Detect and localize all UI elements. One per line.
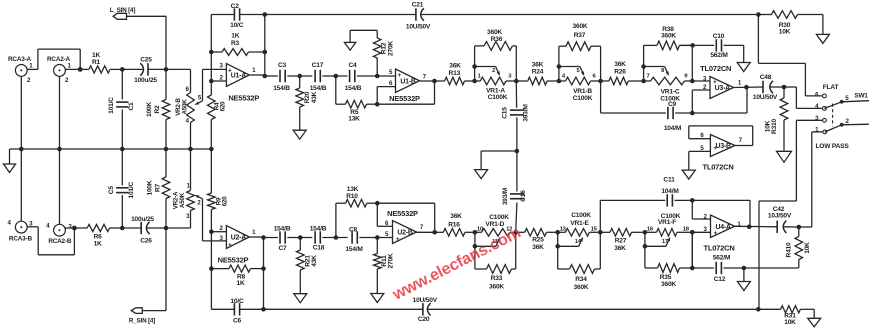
wire C17 to C4 — [322, 75, 347, 77]
resistor R33 360K / potentiometer VR1-D C100K — [473, 214, 518, 291]
svg-text:+: + — [396, 236, 400, 243]
wire U1-A output — [249, 15, 264, 77]
capacitor C48 10U/50V — [753, 74, 778, 101]
wire U1-B feedback — [377, 81, 434, 104]
wire U3-A output — [734, 86, 763, 89]
wire C48 to switch terminal 4 — [784, 87, 823, 108]
node RCA2-B ground-bus — [57, 147, 62, 152]
svg-text:RCA3-A: RCA3-A — [8, 56, 32, 63]
svg-text:R37: R37 — [574, 32, 586, 39]
resistor R7 100K — [147, 149, 170, 228]
wire bottom bus C6 to C20 — [240, 308, 423, 310]
svg-text:36K: 36K — [450, 213, 462, 220]
switch SW1 terminal 1 — [815, 126, 827, 133]
svg-text:562/M: 562/M — [713, 255, 731, 262]
svg-text:360K: 360K — [489, 284, 504, 291]
svg-text:C10: C10 — [713, 33, 725, 40]
ground (R21) — [294, 294, 307, 303]
ground (C15/C16) — [475, 170, 488, 179]
wire top bus C21 to R30 — [421, 14, 759, 16]
label LOW PASS — [815, 143, 849, 150]
svg-text:R7: R7 — [154, 183, 161, 192]
wire C12 ground stem — [743, 268, 745, 282]
wire C9 line — [601, 112, 666, 114]
svg-text:10K: 10K — [804, 242, 811, 254]
svg-text:100u/25: 100u/25 — [131, 216, 154, 223]
switch SW1 link dashed — [832, 104, 834, 127]
svg-text:36K: 36K — [614, 245, 626, 252]
svg-text:R33: R33 — [491, 275, 503, 282]
svg-text:VR1-D: VR1-D — [485, 221, 504, 228]
svg-text:154/B: 154/B — [274, 225, 291, 232]
svg-text:1K: 1K — [94, 241, 102, 248]
wire C7 to C18 — [287, 237, 312, 239]
svg-text:C17: C17 — [312, 62, 324, 69]
ground bus (input common) — [10, 148, 212, 150]
ground (R31) — [808, 309, 821, 327]
switch SW1 terminal 3 — [815, 115, 826, 122]
node R_SIN junction — [164, 226, 169, 231]
potentiometer VR2-A A50K — [172, 149, 201, 228]
wire C11 line — [600, 199, 665, 201]
svg-text:R13: R13 — [449, 70, 461, 77]
wire U2-B output — [417, 224, 435, 232]
svg-text:13: 13 — [560, 227, 567, 233]
node L_SIN junction — [164, 67, 169, 72]
node U4-A output — [747, 225, 752, 230]
svg-text:101/C: 101/C — [108, 97, 115, 114]
wire C12 to R410 bottom — [744, 267, 799, 269]
svg-text:R34: R34 — [575, 276, 587, 283]
wire C9 feedback to output — [692, 87, 747, 113]
wire R38 to C10 — [680, 44, 693, 46]
svg-text:R24: R24 — [532, 68, 544, 75]
connector RCA2-A — [47, 56, 71, 84]
svg-text:C7: C7 — [278, 245, 287, 252]
capacitor C7 154/B — [264, 225, 291, 252]
node R12 junction — [375, 74, 380, 79]
svg-text:C100K: C100K — [573, 95, 593, 102]
node R21 junction — [298, 235, 303, 240]
node R35 right — [690, 266, 695, 271]
svg-text:360K: 360K — [573, 23, 588, 30]
node R8 right — [261, 266, 266, 271]
svg-text:13K: 13K — [347, 186, 359, 193]
ground (C12) — [737, 282, 750, 291]
capacitor C16 393/M — [502, 151, 527, 232]
ground (R11) — [371, 294, 384, 303]
wire U1-B pin6 — [377, 87, 395, 105]
wire bottom bus C20 to R31 — [428, 308, 759, 310]
svg-text:2: 2 — [492, 68, 495, 74]
svg-text:C6: C6 — [233, 318, 242, 325]
op-amp U1-A — [220, 62, 260, 102]
node top bus output — [263, 12, 268, 17]
node C6 right — [261, 307, 266, 312]
node C48 right — [782, 85, 787, 90]
node R5 right — [375, 102, 380, 107]
wire U1-A pin2 — [211, 80, 226, 82]
svg-text:RCA2-B: RCA2-B — [48, 238, 72, 245]
label SW1 — [854, 92, 868, 99]
svg-text:R27: R27 — [615, 238, 627, 245]
switch SW1 blade flat — [824, 102, 841, 109]
wire RCA3-A pin1 link — [27, 49, 80, 69]
svg-text:43K: 43K — [311, 91, 318, 103]
svg-text:360K: 360K — [574, 284, 589, 291]
svg-text:10K: 10K — [779, 29, 791, 36]
resistor R26 36K — [601, 61, 644, 85]
switch SW1 terminal 6 — [815, 91, 826, 98]
wire C42 right — [783, 226, 799, 228]
svg-text:393/M: 393/M — [502, 187, 509, 205]
capacitor C20 10U/50V — [413, 297, 438, 323]
op-amp U1-B — [389, 69, 420, 103]
resistor R24 36K — [516, 61, 559, 85]
node bottom bus right — [756, 307, 761, 312]
svg-text:TL072CN: TL072CN — [702, 162, 733, 171]
svg-text:17: 17 — [662, 239, 668, 245]
connector RCA2-B — [46, 223, 72, 245]
svg-text:A50K: A50K — [179, 192, 186, 208]
svg-text:C15: C15 — [501, 107, 508, 119]
svg-text:C26: C26 — [140, 238, 152, 245]
node R11 junction — [375, 235, 380, 240]
resistor R31 10K — [758, 306, 814, 327]
svg-text:VR1-B: VR1-B — [573, 88, 592, 95]
resistor R12 270K — [350, 30, 394, 76]
resistor R13 36K — [435, 63, 475, 85]
capacitor C4 154/B — [345, 62, 362, 92]
wire pole 5 out — [842, 101, 869, 102]
wire C25 to VR2-B — [166, 68, 191, 70]
node U1-B output — [432, 79, 437, 84]
svg-text:R_SIN [4]: R_SIN [4] — [129, 318, 155, 325]
svg-text:562/M: 562/M — [710, 52, 728, 59]
svg-text:C16: C16 — [520, 190, 527, 202]
node U2-A pin2 — [209, 229, 214, 234]
node C1 ground-bus — [120, 147, 125, 152]
svg-text:154/B: 154/B — [345, 85, 362, 92]
svg-text:U1-B: U1-B — [400, 78, 416, 85]
resistor R4 620 — [208, 81, 227, 149]
svg-text:+: + — [398, 72, 402, 79]
resistor R37 360K / potentiometer VR1-B C100K — [557, 23, 603, 102]
svg-text:R36: R36 — [491, 36, 503, 43]
svg-text:C11: C11 — [663, 177, 675, 184]
wire top bus left — [211, 14, 234, 16]
wire terminal 1 to lowpass node — [799, 132, 823, 227]
wiper VR2-B — [195, 69, 202, 104]
watermark — [389, 224, 524, 305]
node R3 left — [209, 50, 214, 55]
wire U2-A pin2 — [211, 231, 226, 233]
svg-text:36K: 36K — [614, 61, 626, 68]
svg-text:1K: 1K — [236, 280, 244, 287]
flag R_SIN [4] — [129, 228, 166, 325]
svg-text:C100K: C100K — [571, 212, 591, 219]
capacitor C5 101/C — [108, 149, 135, 228]
wire C18 to C8 — [322, 237, 347, 239]
svg-text:A50K: A50K — [181, 99, 188, 115]
resistor R27 36K — [600, 229, 645, 252]
wire pin3 node down — [691, 232, 693, 268]
svg-text:U3-A: U3-A — [715, 85, 731, 92]
resistor R6 1K — [74, 224, 122, 247]
wire VR1-B nodeB down — [600, 81, 602, 113]
svg-text:C12: C12 — [714, 276, 726, 283]
svg-text:U2-A: U2-A — [231, 235, 247, 242]
svg-text:R16: R16 — [448, 221, 460, 228]
node shared C15/C16 — [515, 149, 520, 154]
op-amp U3-B — [700, 132, 735, 171]
svg-text:R10: R10 — [346, 193, 358, 200]
node top bus right — [756, 12, 761, 17]
capacitor C6 10/C — [230, 298, 244, 325]
svg-text:C100K: C100K — [488, 94, 508, 101]
wire shared ground tap — [481, 151, 517, 170]
capacitor C18 154/B — [310, 225, 327, 251]
resistor R8 1K — [211, 265, 263, 287]
svg-text:RCA3-B: RCA3-B — [9, 236, 33, 243]
svg-text:10U/50V: 10U/50V — [753, 94, 778, 101]
node U1-A output — [263, 74, 268, 79]
switch SW1 pole 2 — [840, 118, 850, 127]
wire RCA2-A shield — [59, 76, 61, 149]
resistor R3 1K — [211, 33, 264, 56]
capacitor C10 562/M — [693, 33, 744, 59]
svg-text:104/M: 104/M — [661, 188, 679, 195]
svg-text:10/C: 10/C — [230, 298, 244, 305]
wire RCA2-B pin3 — [65, 227, 74, 229]
wire R8 left vertical — [211, 232, 234, 310]
svg-text:U2-B: U2-B — [397, 230, 413, 237]
wire C4 to U1-B pin5 — [357, 75, 396, 77]
resistor R9 620 — [208, 149, 229, 232]
svg-text:TL072CN: TL072CN — [703, 243, 734, 252]
svg-text:U3-B: U3-B — [716, 143, 732, 150]
svg-text:R2: R2 — [154, 105, 161, 114]
node input-L junction — [78, 67, 83, 72]
wire U1-B output — [420, 73, 435, 81]
wire RCA3-B pin3 link — [27, 227, 74, 255]
svg-text:SW1: SW1 — [854, 92, 868, 99]
wire U3-B pin5 — [689, 151, 711, 170]
svg-text:C2: C2 — [231, 3, 240, 10]
wire feedback left vertical — [210, 15, 212, 82]
svg-text:C48: C48 — [760, 74, 772, 81]
wire C26 to VR2-A — [166, 227, 191, 229]
resistor R34 360K / potentiometer VR1-E C100K — [555, 212, 602, 291]
ground (U3-B pin5) — [682, 170, 695, 179]
capacitor C42 10J/50V — [768, 206, 792, 233]
svg-text:U4-A: U4-A — [715, 224, 731, 231]
wire RCA3-B shield — [20, 149, 22, 221]
svg-text:VR1-F: VR1-F — [658, 219, 676, 226]
svg-text:R1: R1 — [92, 59, 101, 66]
svg-text:154/B: 154/B — [310, 225, 327, 232]
svg-text:+: + — [714, 230, 718, 237]
ground (R30) — [816, 15, 829, 44]
svg-text:VR1-E: VR1-E — [570, 220, 589, 227]
svg-text:270K: 270K — [387, 253, 394, 268]
wire U3-A pin2 — [692, 90, 710, 113]
svg-text:5: 5 — [576, 68, 579, 74]
wire flat feed to terminal 6 — [758, 15, 822, 96]
resistor R35 360K / potentiometer VR1-F C100K — [643, 213, 695, 288]
svg-text:101/C: 101/C — [128, 181, 135, 198]
ground (input bus) — [4, 149, 16, 173]
wire top bus C2 to C21 — [240, 14, 416, 16]
svg-text:100u/25: 100u/25 — [134, 77, 157, 84]
capacitor C15 393/M — [501, 81, 529, 151]
wire C3 to C17 — [287, 75, 312, 77]
svg-text:620: 620 — [220, 101, 227, 111]
svg-text:C3: C3 — [278, 62, 287, 69]
potentiometer VR2-B A50K — [175, 69, 202, 149]
capacitor C25 100u/25 — [122, 57, 166, 85]
svg-text:154/M: 154/M — [345, 246, 363, 253]
svg-text:C5: C5 — [108, 186, 115, 195]
svg-text:C21: C21 — [412, 1, 424, 8]
svg-text:154/B: 154/B — [273, 85, 290, 92]
wire RCA2-B shield — [59, 149, 61, 224]
wire VR1-E nodeB up — [599, 200, 601, 232]
wire RCA2-A pin1 — [65, 68, 80, 70]
ground (R20) — [293, 130, 306, 139]
svg-text:104/M: 104/M — [664, 125, 682, 132]
node C1 junction — [120, 67, 125, 72]
svg-text:8: 8 — [661, 68, 664, 74]
svg-text:10U/50V: 10U/50V — [413, 297, 438, 304]
svg-text:36K: 36K — [532, 61, 544, 68]
svg-text:15: 15 — [591, 227, 598, 233]
svg-text:TL072CN: TL072CN — [700, 64, 731, 73]
resistor R1 1K — [80, 52, 122, 73]
wire U3-B pin6 feedback — [689, 126, 753, 146]
resistor R25 36K — [516, 229, 558, 252]
svg-text:100K: 100K — [146, 102, 153, 117]
node R5 branch — [334, 74, 339, 79]
svg-text:36K: 36K — [532, 244, 544, 251]
node C10 junction — [690, 43, 695, 48]
node R20 junction — [297, 74, 302, 79]
node U2-B output — [432, 230, 437, 235]
svg-text:NE5532P: NE5532P — [387, 209, 418, 218]
svg-text:360K: 360K — [661, 281, 676, 288]
wire U3-A pin3 — [692, 79, 742, 86]
resistor R410 10K — [785, 227, 811, 268]
ground (C10) — [737, 63, 750, 72]
ground (R12 top) — [344, 30, 355, 50]
svg-text:C20: C20 — [418, 316, 430, 323]
switch SW1 terminal 4 — [815, 103, 826, 110]
label FLAT — [823, 84, 839, 91]
svg-text:10/C: 10/C — [230, 22, 244, 29]
svg-text:10K: 10K — [784, 319, 796, 326]
resistor R2 100K — [146, 69, 170, 149]
capacitor C11 104/M — [661, 177, 692, 207]
wire R5 branch down — [335, 76, 337, 104]
svg-text:FLAT: FLAT — [823, 84, 839, 91]
capacitor C21 10U/50V — [406, 1, 431, 30]
node C11 pin2 junction — [690, 198, 695, 203]
node input-R junction — [72, 226, 77, 231]
wire U2-B feedback — [377, 203, 434, 232]
wire U4-A pin2 — [692, 200, 710, 219]
resistor R10 13K — [336, 186, 377, 207]
svg-text:+: + — [228, 242, 232, 249]
capacitor C9 104/M — [664, 101, 692, 132]
resistor R11 270K — [374, 238, 395, 294]
svg-text:R410: R410 — [785, 242, 792, 257]
node C5 junction — [120, 226, 125, 231]
svg-text:R310: R310 — [771, 118, 778, 133]
svg-text:+: + — [228, 68, 232, 75]
resistor R20 43K — [296, 76, 318, 130]
node U3-A output — [744, 85, 749, 90]
svg-text:C100K: C100K — [660, 95, 680, 102]
node R2 ground-bus — [164, 147, 169, 152]
svg-text:NE5532P: NE5532P — [389, 94, 420, 103]
svg-text:+: + — [713, 79, 717, 86]
wire U2-A output — [249, 229, 263, 309]
svg-text:10J/50V: 10J/50V — [768, 212, 792, 219]
svg-text:C4: C4 — [348, 62, 357, 69]
svg-text:C100K: C100K — [489, 214, 509, 221]
node C42 right — [797, 225, 802, 230]
capacitor C12 562/M — [692, 255, 744, 284]
svg-text:R25: R25 — [532, 237, 544, 244]
node C12 right — [742, 266, 747, 271]
wire pole 2 out — [842, 123, 869, 126]
node U2-A output — [261, 235, 266, 240]
wire C10 ground stem — [743, 45, 745, 62]
svg-text:100K: 100K — [147, 180, 154, 195]
resistor R310 10K — [764, 87, 788, 151]
svg-text:620: 620 — [222, 196, 229, 206]
op-amp U4-A — [703, 214, 734, 253]
node R8 left — [209, 266, 214, 271]
svg-text:154/B: 154/B — [310, 85, 327, 92]
wire U2-B pin6 — [377, 203, 392, 226]
resistor R30 10K — [758, 11, 823, 36]
wire C11 feedback to output — [692, 200, 750, 226]
switch SW1 blade lowpass — [825, 125, 842, 132]
node R10 branch — [334, 235, 339, 240]
resistor R38 360K / potentiometer VR1-C C100K — [641, 26, 694, 103]
resistor R36 360K / potentiometer VR1-A C100K — [472, 29, 518, 101]
node RCA3-B ground-bus — [19, 147, 24, 152]
capacitor C2 10/C — [230, 3, 244, 29]
svg-text:C8: C8 — [349, 226, 358, 233]
op-amp U2-B — [385, 209, 418, 243]
svg-text:18: 18 — [683, 227, 690, 233]
resistor R16 36K — [435, 213, 475, 236]
wire R10 branch up — [335, 203, 337, 237]
node R9 ground-bus — [209, 147, 214, 152]
svg-text:NE5532P: NE5532P — [228, 94, 259, 103]
wire C48 right — [770, 86, 784, 88]
switch SW1 pole 5 — [840, 95, 850, 104]
svg-text:LOW PASS: LOW PASS — [815, 143, 849, 150]
svg-text:1K: 1K — [231, 33, 239, 40]
wire U4-A pin3 — [692, 221, 741, 233]
flag L_SIN [4] — [110, 7, 166, 69]
capacitor C3 154/B — [265, 62, 290, 92]
wiper VR2-A — [195, 195, 202, 241]
capacitor C1 101/C — [108, 69, 135, 149]
